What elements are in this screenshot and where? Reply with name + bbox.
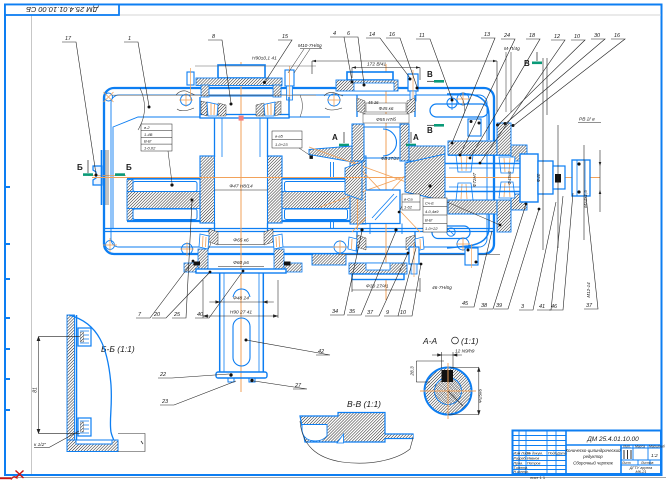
section Б-Б view	[33, 315, 146, 452]
shaft step1	[520, 154, 538, 202]
tolerance block 4	[423, 198, 501, 232]
tolerance block 1	[141, 124, 174, 187]
shaft1 centerline	[240, 62, 242, 392]
sail curve	[69, 315, 114, 442]
left fold ticks	[5, 187, 10, 410]
white recesses right	[285, 182, 349, 192]
svg-text:1:2: 1:2	[651, 453, 658, 459]
right dim	[448, 368, 480, 415]
sleeve flange	[497, 123, 511, 155]
shaft2 top bearing	[357, 95, 415, 123]
svg-text:4-0,4в9: 4-0,4в9	[425, 209, 439, 214]
sleeve top wall	[448, 141, 497, 155]
shaft1 neck	[215, 118, 268, 157]
leader 8	[208, 34, 233, 106]
white recesses left	[133, 182, 197, 192]
svg-text:А: А	[413, 133, 419, 142]
svg-text:40: 40	[197, 312, 204, 318]
top-left stamp	[5, 5, 119, 16]
shaft2 bottom bearing	[348, 232, 424, 253]
svg-text:Масса: Масса	[635, 445, 645, 449]
svg-text:В: В	[427, 126, 433, 135]
svg-text:№ докум.: № докум.	[527, 452, 543, 456]
svg-text:А-А: А-А	[422, 336, 438, 346]
housing foot pads	[312, 254, 346, 265]
svg-text:в-а5: в-а5	[275, 134, 284, 139]
svg-text:28,3: 28,3	[410, 366, 416, 377]
end cover	[511, 145, 527, 161]
svg-text:Ф60 р6: Ф60 р6	[233, 260, 249, 266]
housing body outer	[104, 88, 494, 254]
svg-text:В: В	[427, 70, 433, 79]
svg-text:37: 37	[586, 303, 593, 309]
section mark B-B left	[77, 160, 132, 176]
svg-text:Н.контр.: Н.контр.	[514, 470, 529, 474]
section mark B third	[532, 62, 542, 65]
housing cavity line	[113, 117, 330, 228]
svg-text:М10-7Н/6g: М10-7Н/6g	[298, 43, 322, 49]
leader 15	[263, 34, 292, 84]
gear blank below (pinion)	[366, 190, 400, 224]
shaft step2 / nut	[538, 161, 553, 194]
svg-text:Пров.: Пров.	[514, 462, 523, 466]
svg-text:ДМ 25.4.01.10.00 СБ: ДМ 25.4.01.10.00 СБ	[26, 5, 99, 14]
tolerance block 3	[398, 194, 420, 213]
bearing rollers left pair	[456, 155, 473, 200]
svg-text:В: В	[524, 59, 530, 68]
svg-text:Разраб.: Разраб.	[514, 457, 527, 461]
bottom flange bolt	[465, 248, 478, 265]
svg-text:Н90 27 41: Н90 27 41	[230, 310, 252, 316]
keyway black	[442, 370, 454, 382]
drain plug left wall	[88, 150, 126, 205]
section B-B view	[300, 399, 413, 463]
svg-text:45: 45	[462, 301, 469, 307]
bottom left leaders	[136, 260, 194, 318]
shaft1 top bearing unit	[200, 97, 289, 118]
input shaft centerline	[92, 177, 600, 179]
left rim hatched	[127, 180, 133, 221]
svg-text:11: 11	[419, 33, 425, 39]
shaft1 top stud bolts	[187, 70, 294, 100]
svg-text:14: 14	[369, 32, 375, 38]
svg-text:в-2: в-2	[144, 125, 150, 130]
svg-text:к 1/2″: к 1/2″	[34, 442, 46, 448]
svg-text:Ф48 24: Ф48 24	[233, 296, 249, 302]
svg-text:Сборочный чертеж: Сборочный чертеж	[573, 461, 614, 466]
bearing cones hatched	[201, 101, 207, 116]
bevel mesh cone lines	[309, 147, 445, 232]
svg-text:Коническо-цилиндрический: Коническо-цилиндрический	[566, 448, 622, 453]
svg-text:41: 41	[539, 304, 545, 310]
shaft2 top cover plate	[336, 80, 398, 91]
small dim right of wheel	[508, 127, 545, 143]
svg-text:1-0,02: 1-0,02	[144, 145, 156, 150]
svg-text:1-62: 1-62	[404, 205, 413, 210]
gear wheel left half outline	[127, 179, 200, 222]
title block frame	[513, 431, 662, 475]
svg-text:Ф45 к6: Ф45 к6	[379, 106, 394, 111]
shaft2 bottom bolt	[409, 247, 419, 264]
svg-text:ДМ 25.4.01.10.00: ДМ 25.4.01.10.00	[586, 436, 639, 443]
svg-text:Сч-Е: Сч-Е	[425, 201, 434, 206]
svg-text:Т.контр.: Т.контр.	[514, 466, 529, 470]
dim 81	[37, 337, 80, 434]
svg-text:38: 38	[481, 303, 488, 309]
svg-text:25: 25	[173, 312, 181, 318]
svg-text:37: 37	[367, 310, 374, 316]
cover plate	[67, 315, 75, 448]
housing right boss outline	[447, 94, 489, 248]
gear wheel hub right	[268, 156, 283, 223]
leader 6	[344, 31, 366, 87]
shaft1 output end down	[216, 273, 267, 382]
housing inner wall	[111, 95, 487, 247]
bolt hole centers orange	[103, 92, 470, 256]
svg-text:А: А	[332, 133, 338, 142]
svg-text:Иванов: Иванов	[527, 457, 539, 461]
svg-text:Ф30 27/41: Ф30 27/41	[366, 284, 389, 290]
keyway slot	[233, 318, 250, 366]
rollers	[207, 102, 218, 116]
mesh rim tall (wheel+pinion teeth)	[350, 156, 366, 224]
leader 4	[330, 31, 354, 84]
leader 16	[386, 32, 419, 90]
oil channel loop top	[430, 104, 488, 117]
left columns	[513, 431, 567, 475]
shaft1 lower neck	[215, 223, 268, 232]
svg-text:Б: Б	[126, 163, 132, 172]
svg-text:18: 18	[529, 33, 536, 39]
svg-text:1-4В: 1-4В	[144, 132, 153, 137]
shaft2 top cap	[347, 72, 393, 80]
flange bolt dots	[496, 124, 499, 127]
right vertical dims	[543, 58, 601, 250]
svg-text:81: 81	[33, 387, 39, 393]
svg-text:ФВ 27/24: ФВ 27/24	[381, 156, 399, 161]
shaft1 top cover walls	[201, 85, 209, 97]
section A-A view	[410, 336, 484, 419]
svg-text:10: 10	[400, 310, 407, 316]
section mark A-A	[332, 132, 419, 146]
svg-text:редуктор: редуктор	[582, 454, 603, 459]
svg-text:В-В': В-В'	[425, 218, 433, 223]
svg-text:Ф40: Ф40	[536, 173, 541, 182]
bearing rollers right pair	[499, 157, 515, 198]
top bolt	[78, 328, 91, 346]
wheel web hatched right	[282, 192, 350, 209]
end plate	[216, 372, 267, 378]
svg-text:1-0+23: 1-0+23	[275, 142, 288, 147]
svg-text:В-В': В-В'	[144, 139, 152, 144]
shaft2 top stud bolt	[408, 74, 418, 91]
bottom mid leaders	[330, 231, 362, 315]
svg-text:РВ 2/ в: РВ 2/ в	[579, 117, 595, 123]
stepped block	[300, 413, 413, 443]
svg-text:12 N9/h9: 12 N9/h9	[455, 349, 475, 355]
svg-text:46-7Н/6g: 46-7Н/6g	[432, 285, 452, 291]
shaft1 top cover plate	[196, 78, 282, 86]
svg-text:Лист: Лист	[621, 461, 631, 465]
clamp bolt top	[468, 119, 481, 136]
bottom bolt	[78, 418, 91, 436]
svg-text:в-Са: в-Са	[404, 197, 413, 202]
leader 14	[366, 32, 412, 81]
svg-text:46: 46	[551, 304, 558, 310]
input shaft body	[445, 164, 527, 192]
svg-text:34: 34	[332, 309, 338, 315]
tolerance block 2	[272, 131, 313, 159]
bottom strip	[67, 440, 118, 452]
svg-text:9: 9	[386, 310, 389, 316]
gear wheel right half outline	[282, 179, 356, 222]
svg-text:39: 39	[496, 303, 502, 309]
svg-text:Б: Б	[77, 163, 83, 172]
svg-text:Лит.: Лит.	[622, 445, 631, 449]
outer hatched ring	[425, 368, 472, 415]
svg-text:В-В (1:1): В-В (1:1)	[347, 399, 381, 409]
svg-text:20: 20	[153, 312, 161, 318]
svg-text:12: 12	[554, 34, 560, 40]
mating frame black	[118, 434, 145, 452]
svg-text:(1:1): (1:1)	[461, 336, 479, 346]
svg-text:Петров: Петров	[527, 462, 541, 466]
top dim	[432, 352, 462, 368]
top right fan	[451, 32, 495, 144]
svg-text:35: 35	[349, 309, 356, 315]
svg-text:13: 13	[484, 32, 491, 38]
svg-text:лист 1 1: лист 1 1	[530, 475, 546, 480]
leader 1	[124, 36, 151, 109]
svg-text:Ф25к6: Ф25к6	[478, 389, 484, 403]
oil channel loop bottom	[432, 226, 470, 239]
svg-text:16: 16	[614, 33, 621, 39]
leader 11	[416, 33, 454, 102]
selected vertex marker	[239, 116, 244, 121]
svg-text:М-П/4g: М-П/4g	[504, 46, 520, 52]
red revision mark X	[0, 471, 24, 480]
bottom shaft dims	[203, 280, 278, 318]
svg-text:1: 1	[128, 36, 131, 42]
shaft1 bearing dims	[218, 245, 264, 267]
svg-text:Ф55 Н7/б: Ф55 Н7/б	[376, 117, 396, 122]
svg-text:Ф47 Н8/14: Ф47 Н8/14	[229, 184, 253, 190]
sleeve bottom wall	[448, 200, 497, 214]
svg-text:15: 15	[282, 34, 289, 40]
svg-text:Н90±0,1 41: Н90±0,1 41	[252, 56, 277, 62]
shaft2 bottom cover	[349, 263, 407, 274]
shaft1 bottom bearing	[184, 229, 302, 273]
mesh triangle hatched	[345, 162, 362, 200]
right area	[621, 445, 661, 465]
wheel web hatched left	[127, 192, 200, 209]
svg-text:27: 27	[294, 383, 302, 389]
svg-text:Листов: Листов	[640, 461, 654, 465]
svg-text:1-0+22: 1-0+22	[425, 226, 438, 231]
svg-text:Ф72Н7: Ф72Н7	[472, 172, 477, 187]
gear wheel hub left	[200, 156, 215, 223]
svg-text:М12-14: М12-14	[586, 282, 591, 298]
svg-text:30: 30	[594, 33, 601, 39]
key black	[555, 174, 561, 183]
svg-text:4: 4	[333, 31, 336, 37]
white pocket	[302, 425, 327, 441]
inner bore	[435, 378, 462, 405]
svg-text:23: 23	[161, 399, 169, 405]
svg-text:172 В/41: 172 В/41	[367, 62, 387, 68]
section mark B-B right	[427, 70, 444, 135]
svg-text:45 16: 45 16	[368, 100, 379, 105]
svg-text:24: 24	[503, 33, 510, 39]
svg-text:Ф65 к6: Ф65 к6	[233, 238, 249, 244]
svg-text:42: 42	[318, 349, 324, 355]
svg-text:Масштаб: Масштаб	[649, 445, 665, 449]
bevel pinion	[405, 154, 445, 201]
svg-text:17: 17	[65, 36, 72, 42]
bevel gear hub	[352, 124, 364, 161]
center lines	[420, 390, 476, 392]
svg-text:16: 16	[389, 32, 396, 38]
bolt ear top-left 1	[105, 88, 470, 255]
leader 17	[62, 36, 98, 177]
svg-text:22: 22	[159, 372, 166, 378]
svg-text:10: 10	[574, 34, 581, 40]
coupling hub	[572, 160, 590, 196]
shaft2 centerline	[385, 64, 387, 300]
bearing shelf bars	[309, 146, 352, 162]
housing split line	[104, 228, 494, 230]
shaft1 top cap	[218, 65, 265, 78]
leaders 22 23 27 42 on lower shaft	[158, 372, 229, 378]
svg-text:МК-21: МК-21	[636, 470, 647, 474]
svg-text:Ф45к6: Ф45к6	[507, 171, 512, 185]
left dim	[416, 361, 444, 382]
wheel bore dim	[215, 189, 268, 191]
black contour	[300, 421, 413, 463]
bottom right leaders	[460, 231, 492, 307]
svg-text:М24×1,5: М24×1,5	[583, 190, 588, 208]
